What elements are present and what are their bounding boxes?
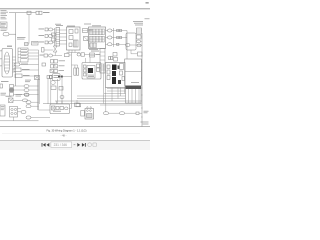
- wire drops mid: [58, 78, 63, 104]
- wires U1 down: [69, 50, 75, 53]
- wire FN1: [44, 50, 55, 56]
- relay box BB1: [125, 59, 142, 86]
- wire D1 diagonal: [88, 41, 90, 48]
- sensor oval SO1: [51, 81, 55, 85]
- CL1 dark blob: [88, 68, 93, 73]
- LA1 cell b: [60, 107, 64, 110]
- wire SB3: [131, 50, 138, 54]
- junction box J1: [0, 105, 5, 116]
- wire CN15 right: [109, 112, 120, 114]
- ECU cell H: [122, 77, 125, 81]
- button last page: [82, 143, 86, 147]
- wire drop D2: [103, 64, 105, 104]
- wire CN10 right: [112, 30, 127, 32]
- pill P1 box pair: [77, 53, 90, 56]
- cluster block CL1: [82, 63, 101, 80]
- wires L2 to bus: [28, 50, 39, 59]
- U1 cell a: [69, 30, 73, 34]
- relay box CW pair: [36, 11, 42, 14]
- wire S1: [21, 69, 39, 71]
- U1 hatched cell: [74, 40, 79, 47]
- connector pill CN19: [126, 44, 131, 47]
- ECU chip B: [112, 71, 116, 76]
- wire mesh h3: [104, 93, 126, 95]
- stub box SB2: [75, 100, 80, 107]
- connector pill CN6: [23, 99, 28, 102]
- LA1 label: [53, 110, 61, 113]
- wire run W4: [100, 104, 142, 106]
- wires CN17-18: [31, 102, 39, 106]
- connector pill CN4: [24, 89, 29, 92]
- bus B5 ticks: [141, 56, 143, 117]
- connector pill CN11: [106, 36, 113, 39]
- wire CN12 right: [112, 43, 126, 45]
- wire bus B3: [113, 28, 115, 47]
- sensor box S4: [65, 54, 72, 57]
- label CN16: [144, 111, 149, 113]
- connector pill CN1: [3, 33, 9, 36]
- U1 cell b: [69, 36, 73, 40]
- doc number: [141, 122, 149, 125]
- page number 48: [61, 135, 67, 138]
- U1 label: [67, 25, 75, 28]
- U1 cell c: [75, 29, 78, 33]
- label L3: [1, 80, 9, 83]
- gauge box G1: [90, 53, 101, 57]
- wire bus B6: [71, 53, 73, 109]
- icon zoom: [88, 143, 92, 147]
- capacitor bar C1: [74, 68, 76, 75]
- fan motor FM1: [35, 76, 40, 80]
- wire bus B4: [126, 31, 128, 60]
- connector pill CN7: [25, 94, 30, 96]
- connector pill CN3: [24, 85, 29, 88]
- ECU left cell c: [107, 76, 110, 80]
- scan top rule: [0, 8, 150, 10]
- wires CL1 top: [86, 57, 91, 63]
- switch box S2: [15, 74, 30, 78]
- horn relay K1: [9, 98, 14, 103]
- button next page: [77, 143, 80, 147]
- wire ground run: [0, 120, 39, 122]
- LA1 drops: [57, 101, 63, 104]
- CU1 stub: [50, 75, 53, 78]
- motor unit MU1: [85, 109, 94, 120]
- connector shell X1: [2, 49, 13, 78]
- inline box IB1: [59, 87, 63, 91]
- mesh vertical v1: [105, 88, 107, 104]
- wire S2: [22, 75, 39, 77]
- wire mesh h2: [107, 90, 126, 92]
- connector pill CN12: [106, 43, 113, 46]
- connector pill CN5: [24, 93, 29, 96]
- connector pill CN15: [104, 112, 109, 115]
- BB1 stubs: [140, 62, 143, 78]
- box pair BP1: [109, 57, 113, 60]
- box pair BP2: [47, 76, 52, 79]
- wire IB2 right: [139, 112, 142, 114]
- wire drop from SD: [28, 14, 30, 43]
- X1 pin wires: [13, 57, 16, 72]
- CL1 right cells: [97, 64, 100, 72]
- wire CN2: [20, 64, 39, 66]
- FB1 band3: [90, 43, 97, 48]
- terminal strip TS1: [56, 28, 60, 47]
- BB1 label: [131, 81, 139, 84]
- CL1 left cells: [84, 65, 87, 76]
- wire U1 under: [67, 52, 81, 54]
- corner note: [145, 17, 150, 20]
- button first page: [42, 143, 46, 147]
- label L4: [1, 93, 7, 96]
- relay base K2: [10, 107, 18, 118]
- wire K2 b: [18, 111, 22, 113]
- stub box TS1-b: [52, 38, 56, 41]
- fuse box F3: [10, 93, 14, 97]
- ECU left cell b: [107, 70, 110, 74]
- CL1 text: [88, 75, 94, 77]
- box BX2: [113, 53, 118, 62]
- toolbar background: [0, 141, 150, 150]
- wire run W2: [55, 100, 142, 102]
- wires TS1 to U1: [60, 30, 67, 44]
- box BX4: [76, 104, 81, 107]
- wire CN16 right: [125, 112, 137, 114]
- wire mesh h4: [77, 95, 126, 97]
- LA1 x-box: [52, 106, 56, 110]
- connector pill CN16: [120, 112, 125, 115]
- CB3 dividers: [129, 89, 140, 103]
- label K1 right: [16, 94, 23, 96]
- wire bus B2: [54, 28, 56, 46]
- wire K2 down: [13, 117, 15, 121]
- terminal box T1: [0, 22, 7, 28]
- wires CN3-5 to bus: [29, 86, 39, 94]
- stub box SB3: [138, 52, 143, 56]
- page bottom shade: [2, 133, 140, 135]
- wire CN19 right: [130, 44, 142, 46]
- wire K1: [13, 99, 23, 101]
- CL1 center box: [87, 66, 95, 79]
- wire run W3: [43, 103, 142, 105]
- button prev page: [47, 143, 50, 147]
- harness note: [133, 21, 143, 25]
- wire C1 C2 top: [72, 65, 78, 68]
- fusebox FB1: [89, 27, 106, 49]
- label right of CW: [43, 12, 50, 13]
- connector block CB3: [126, 86, 142, 103]
- MU1 top stubs: [87, 107, 92, 108]
- connector pill CN17: [26, 101, 31, 104]
- wire mesh h1: [107, 88, 126, 90]
- connector pill CN18: [26, 105, 31, 108]
- ECU chip D: [118, 66, 120, 70]
- figure caption: [47, 128, 87, 132]
- connector pill CN14: [137, 44, 141, 47]
- wire A1: [25, 43, 30, 45]
- ECU cell F: [120, 64, 124, 70]
- wire top feed: [9, 12, 36, 14]
- lamp row 2: [39, 35, 55, 38]
- ECU chip A: [112, 65, 117, 71]
- switch box S5: [51, 60, 66, 64]
- meter box M1: [50, 70, 64, 73]
- edge stub box: [0, 84, 3, 88]
- stub box TS1-a: [52, 33, 56, 36]
- label box A2: [32, 42, 39, 46]
- U1 cell d: [69, 43, 72, 47]
- diode box SD: [27, 11, 31, 14]
- mesh vertical v3: [117, 88, 119, 99]
- mesh vertical v2: [111, 88, 113, 102]
- MU1 inner: [87, 114, 93, 118]
- FB1 band1: [90, 29, 105, 35]
- K2 terminals: [11, 108, 17, 114]
- wires F1-F3: [14, 86, 25, 94]
- label horn: [6, 95, 12, 98]
- FB1 band2: [90, 36, 105, 42]
- inline pill IP1: [60, 96, 64, 99]
- MU1 eyes: [87, 110, 92, 112]
- box BX3: [51, 86, 56, 90]
- wire CN1 to bus: [9, 33, 16, 35]
- ECU left cell a: [107, 65, 110, 69]
- fuse box F2: [10, 89, 14, 92]
- label TS1: [55, 24, 63, 26]
- left margin ticks: [0, 51, 2, 67]
- inline box IB2: [136, 112, 139, 114]
- page input box: [51, 142, 72, 148]
- dark chip pair: [58, 76, 63, 78]
- toolbar dash: [74, 143, 76, 146]
- switch box S6: [51, 65, 65, 69]
- ECU cell G: [120, 71, 123, 75]
- MU1 bracket: [81, 111, 85, 117]
- funnel symbol FN1: [53, 46, 57, 52]
- switch box S1: [14, 68, 30, 72]
- connector pill CN9: [26, 116, 31, 119]
- control unit CU1: [53, 74, 61, 81]
- ECU chip E: [118, 80, 121, 84]
- svg-text:Fig. 30 Wiring Diagram 1 - 1.: Fig. 30 Wiring Diagram 1 - 1.1 (1/2): [47, 128, 87, 132]
- fuse block U1: [67, 27, 81, 50]
- diagram bottom border: [0, 126, 150, 128]
- wires CB to bus: [141, 30, 143, 45]
- label block L2: [18, 48, 28, 62]
- breaker box CB2: [137, 35, 142, 39]
- svg-text:- 48 -: - 48 -: [61, 135, 67, 138]
- fuse bar FB0: [42, 48, 45, 53]
- wire CN11 right: [112, 37, 127, 39]
- wire bus B7: [38, 50, 40, 110]
- breaker box CB1: [137, 28, 142, 34]
- label left of FM1: [25, 80, 31, 82]
- label fusebox: [84, 24, 101, 27]
- wire K2 a: [18, 108, 22, 110]
- wire drops FM1: [38, 80, 40, 111]
- wire LA1 right: [70, 107, 72, 109]
- label 150: [7, 46, 12, 47]
- labels under T1: [1, 29, 8, 31]
- wire drops BP2: [48, 79, 51, 105]
- note text block: [17, 37, 26, 40]
- mesh vertical v4: [120, 88, 122, 97]
- left margin labels: [1, 10, 9, 19]
- inline box on CN2: [42, 63, 46, 66]
- ECU chip C: [112, 77, 116, 84]
- wire junction run: [39, 109, 51, 111]
- LA1 pill: [65, 107, 69, 110]
- wire CU1: [60, 76, 72, 78]
- strip under FB1: [100, 49, 105, 74]
- wire bus B1 vertical: [15, 13, 17, 86]
- lamp row 3: [39, 41, 55, 44]
- label under FB1: [89, 49, 99, 52]
- wire bus B5: [141, 33, 143, 127]
- arrow box A1: [25, 43, 29, 46]
- CB3 dark band: [126, 86, 142, 89]
- page background: [0, 0, 150, 150]
- wire drop D3: [105, 104, 107, 112]
- switch box S3: [40, 54, 63, 57]
- fuse box F1: [10, 85, 14, 88]
- ECU outer: [106, 63, 126, 88]
- frame box FR1: [126, 33, 136, 50]
- X1 pin lines: [4, 56, 9, 71]
- toolbar separator: [0, 139, 150, 141]
- LA1 cell a: [56, 107, 59, 110]
- icon fullscreen: [93, 143, 97, 147]
- connector pill CN13: [137, 40, 141, 43]
- connector pill CN10: [106, 29, 113, 32]
- connector pill CN8: [21, 111, 26, 114]
- mesh vertical v5: [124, 88, 126, 94]
- lamp assembly LA1: [50, 104, 70, 114]
- connector pill CN2: [14, 63, 28, 66]
- wire mesh h5: [77, 98, 126, 100]
- connector oval X1: [4, 52, 10, 74]
- diode box D1: [84, 37, 89, 41]
- wire CN9: [31, 117, 50, 119]
- page number top-right: [146, 2, 149, 4]
- lamp row 1: [39, 28, 55, 31]
- resistor box R1: [83, 29, 93, 33]
- wires CL1 right: [101, 66, 106, 70]
- svg-text:231 / 346: 231 / 346: [54, 143, 68, 147]
- capacitor bar C2: [77, 68, 79, 75]
